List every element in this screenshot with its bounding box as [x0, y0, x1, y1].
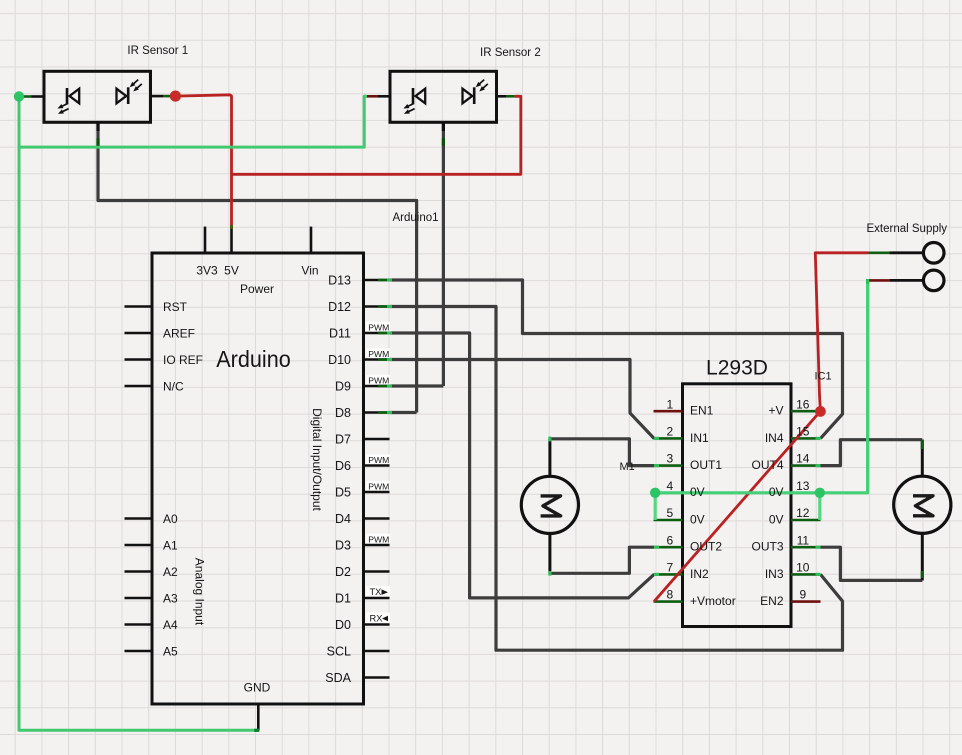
svg-text:3V3: 3V3 — [196, 264, 218, 278]
svg-text:5: 5 — [666, 506, 673, 520]
svg-text:External Supply: External Supply — [867, 223, 948, 235]
svg-text:OUT2: OUT2 — [690, 540, 722, 554]
svg-text:IR Sensor 1: IR Sensor 1 — [127, 45, 188, 57]
svg-text:IN4: IN4 — [765, 431, 784, 445]
svg-text:GND: GND — [244, 681, 271, 695]
svg-text:IO REF: IO REF — [163, 353, 203, 367]
svg-text:RX: RX — [370, 614, 383, 624]
svg-text:D3: D3 — [335, 538, 351, 552]
svg-text:11: 11 — [797, 533, 810, 547]
svg-text:OUT1: OUT1 — [690, 458, 722, 472]
svg-text:7: 7 — [666, 561, 673, 575]
svg-text:Digital Input/Output: Digital Input/Output — [310, 408, 324, 511]
svg-text:D5: D5 — [335, 485, 351, 499]
svg-text:16: 16 — [796, 397, 810, 411]
svg-text:+Vmotor: +Vmotor — [690, 594, 736, 608]
svg-text:D2: D2 — [335, 565, 351, 579]
svg-text:RST: RST — [163, 300, 188, 314]
svg-text:D9: D9 — [335, 379, 351, 393]
svg-text:Analog Input: Analog Input — [193, 558, 207, 626]
svg-text:D1: D1 — [335, 591, 351, 605]
svg-text:3: 3 — [666, 452, 673, 466]
svg-text:N/C: N/C — [163, 379, 184, 393]
svg-text:D10: D10 — [328, 353, 351, 367]
svg-text:IR Sensor 2: IR Sensor 2 — [480, 47, 541, 59]
svg-text:A5: A5 — [163, 644, 178, 658]
svg-text:4: 4 — [666, 479, 673, 493]
svg-text:0V: 0V — [690, 485, 705, 499]
svg-text:10: 10 — [796, 561, 810, 575]
svg-text:Arduino: Arduino — [216, 346, 291, 372]
svg-text:Power: Power — [240, 282, 274, 296]
svg-text:EN2: EN2 — [760, 594, 784, 608]
svg-text:A1: A1 — [163, 538, 178, 552]
svg-text:A2: A2 — [163, 565, 178, 579]
svg-text:D4: D4 — [335, 512, 351, 526]
svg-text:TX: TX — [370, 587, 382, 597]
svg-text:SCL: SCL — [327, 644, 351, 658]
svg-text:14: 14 — [796, 452, 810, 466]
svg-text:A0: A0 — [163, 512, 178, 526]
svg-text:0V: 0V — [769, 512, 784, 526]
svg-text:D0: D0 — [335, 618, 351, 632]
svg-text:IN1: IN1 — [690, 431, 709, 445]
svg-text:Arduino1: Arduino1 — [393, 212, 439, 224]
svg-text:A3: A3 — [163, 591, 178, 605]
svg-text:0V: 0V — [769, 485, 784, 499]
svg-text:D12: D12 — [328, 300, 351, 314]
svg-text:A4: A4 — [163, 618, 178, 632]
svg-text:M1: M1 — [620, 461, 635, 473]
svg-text:PWM: PWM — [368, 322, 389, 332]
svg-text:PWM: PWM — [368, 349, 389, 359]
svg-text:1: 1 — [666, 397, 673, 411]
svg-text:PWM: PWM — [368, 481, 389, 491]
svg-text:PWM: PWM — [368, 375, 389, 385]
svg-text:Vin: Vin — [301, 264, 318, 278]
svg-text:13: 13 — [796, 479, 810, 493]
svg-text:12: 12 — [796, 506, 810, 520]
svg-text:9: 9 — [799, 588, 806, 602]
svg-text:15: 15 — [796, 425, 810, 439]
svg-text:AREF: AREF — [163, 326, 195, 340]
svg-text:SDA: SDA — [325, 671, 351, 685]
svg-text:IC1: IC1 — [815, 371, 832, 383]
svg-text:L293D: L293D — [706, 357, 768, 380]
svg-text:5V: 5V — [224, 264, 239, 278]
svg-text:2: 2 — [666, 425, 673, 439]
svg-text:PWM: PWM — [368, 455, 389, 465]
svg-text:OUT4: OUT4 — [751, 458, 783, 472]
svg-text:EN1: EN1 — [690, 404, 714, 418]
svg-text:PWM: PWM — [368, 534, 389, 544]
svg-text:D7: D7 — [335, 432, 351, 446]
svg-text:0V: 0V — [690, 512, 705, 526]
svg-text:6: 6 — [666, 533, 673, 547]
svg-text:8: 8 — [666, 588, 673, 602]
svg-text:D11: D11 — [329, 326, 351, 340]
svg-text:D13: D13 — [328, 273, 351, 287]
svg-text:IN2: IN2 — [690, 567, 709, 581]
svg-text:D6: D6 — [335, 459, 351, 473]
svg-text:D8: D8 — [335, 406, 351, 420]
svg-text:IN3: IN3 — [765, 567, 784, 581]
svg-text:+V: +V — [768, 404, 783, 418]
svg-text:OUT3: OUT3 — [751, 540, 783, 554]
